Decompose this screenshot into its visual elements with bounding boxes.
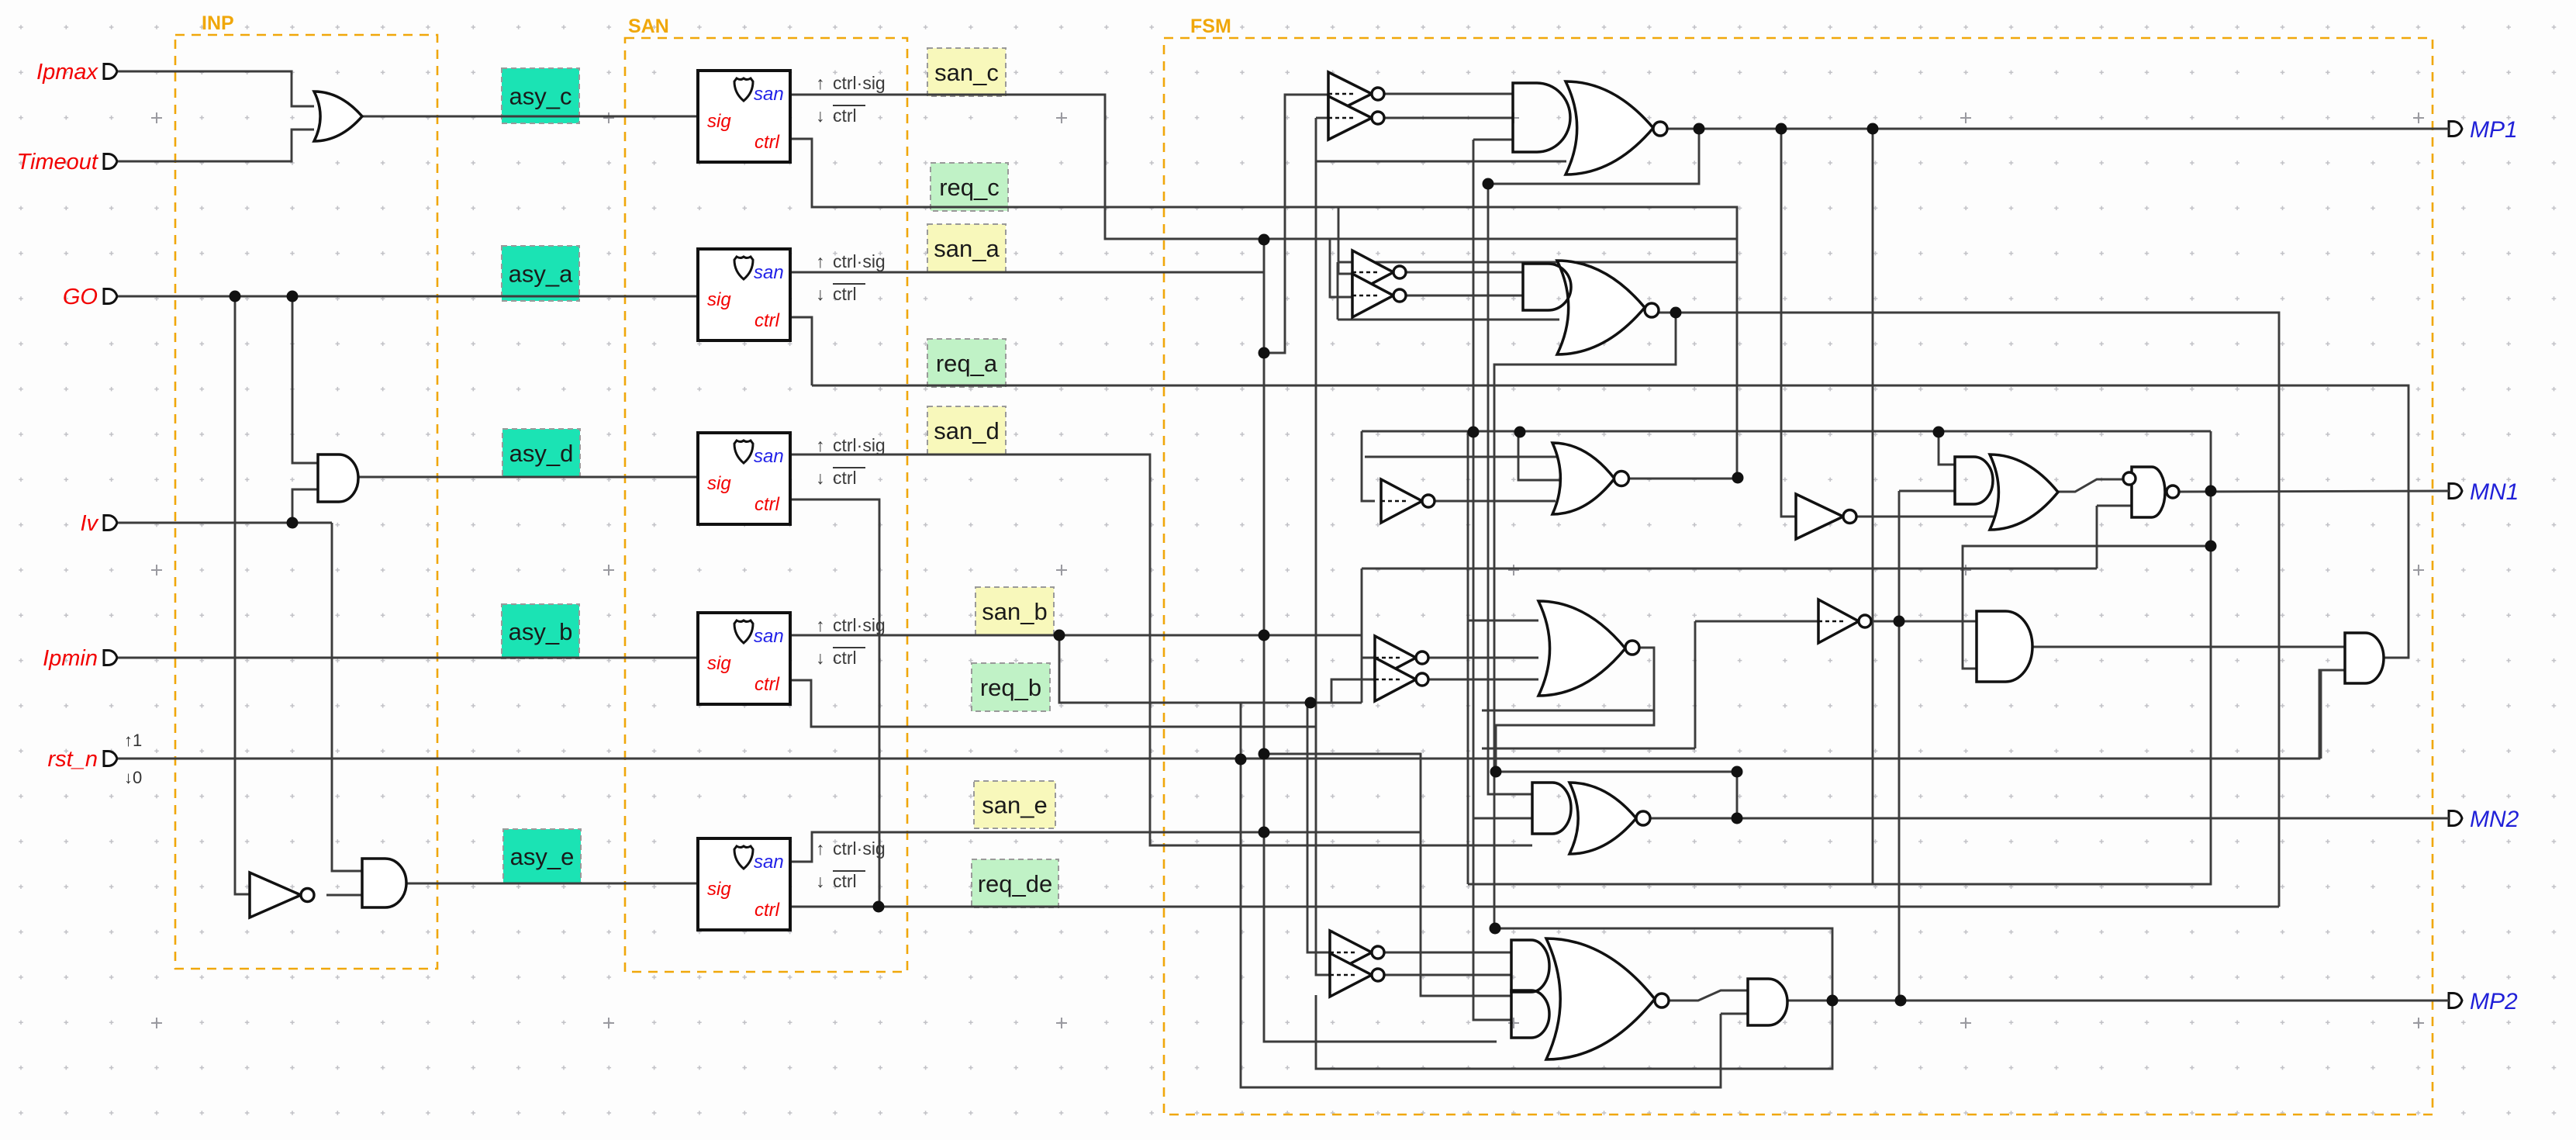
svg-text:↑: ↑ bbox=[816, 73, 825, 93]
svg-text:asy_d: asy_d bbox=[509, 440, 574, 467]
svg-text:↓: ↓ bbox=[816, 871, 825, 891]
svg-text:asy_c: asy_c bbox=[509, 83, 572, 110]
svg-text:ctrl: ctrl bbox=[833, 871, 857, 891]
svg-text:MN1: MN1 bbox=[2470, 479, 2519, 505]
svg-text:asy_e: asy_e bbox=[510, 843, 575, 870]
svg-text:↓: ↓ bbox=[816, 105, 825, 126]
svg-text:san: san bbox=[754, 446, 784, 467]
svg-text:↓: ↓ bbox=[816, 648, 825, 668]
svg-text:ctrl·sig: ctrl·sig bbox=[833, 615, 886, 635]
svg-text:ctrl: ctrl bbox=[754, 310, 780, 331]
svg-text:san: san bbox=[754, 262, 784, 283]
svg-text:ctrl: ctrl bbox=[833, 284, 857, 304]
svg-text:↑: ↑ bbox=[816, 838, 825, 859]
svg-text:↑1: ↑1 bbox=[124, 731, 142, 750]
svg-text:↓: ↓ bbox=[816, 468, 825, 488]
svg-text:req_b: req_b bbox=[980, 674, 1041, 701]
svg-text:INP: INP bbox=[202, 12, 234, 34]
svg-text:↑: ↑ bbox=[816, 251, 825, 271]
svg-text:ctrl·sig: ctrl·sig bbox=[833, 838, 886, 859]
svg-text:san: san bbox=[754, 852, 784, 873]
svg-text:req_a: req_a bbox=[936, 350, 998, 377]
svg-text:ctrl: ctrl bbox=[833, 468, 857, 488]
svg-text:san_b: san_b bbox=[982, 598, 1047, 625]
svg-text:↓: ↓ bbox=[816, 284, 825, 304]
svg-text:req_de: req_de bbox=[978, 870, 1053, 897]
svg-text:↑: ↑ bbox=[816, 435, 825, 455]
svg-text:sig: sig bbox=[707, 473, 731, 494]
svg-text:↓0: ↓0 bbox=[124, 768, 142, 787]
svg-text:ctrl: ctrl bbox=[754, 494, 780, 515]
svg-text:GO: GO bbox=[63, 285, 98, 309]
svg-text:san_d: san_d bbox=[934, 417, 999, 444]
svg-text:Ipmax: Ipmax bbox=[36, 60, 98, 85]
svg-text:MP2: MP2 bbox=[2470, 989, 2518, 1014]
svg-text:ctrl·sig: ctrl·sig bbox=[833, 435, 886, 455]
svg-text:ctrl: ctrl bbox=[754, 674, 780, 695]
svg-text:↑: ↑ bbox=[816, 615, 825, 635]
svg-text:sig: sig bbox=[707, 111, 731, 132]
svg-text:sig: sig bbox=[707, 653, 731, 674]
svg-text:asy_b: asy_b bbox=[509, 618, 573, 645]
svg-text:ctrl: ctrl bbox=[833, 105, 857, 126]
svg-text:Ipmin: Ipmin bbox=[43, 646, 98, 671]
svg-text:san_e: san_e bbox=[982, 792, 1047, 819]
svg-text:san_a: san_a bbox=[934, 235, 1000, 262]
svg-text:ctrl·sig: ctrl·sig bbox=[833, 73, 886, 93]
svg-text:req_c: req_c bbox=[939, 174, 1000, 201]
svg-text:ctrl: ctrl bbox=[754, 900, 780, 921]
svg-text:sig: sig bbox=[707, 879, 731, 900]
svg-text:rst_n: rst_n bbox=[48, 747, 98, 772]
svg-text:ctrl: ctrl bbox=[754, 132, 780, 153]
svg-text:SAN: SAN bbox=[628, 16, 669, 37]
svg-text:ctrl·sig: ctrl·sig bbox=[833, 251, 886, 271]
svg-text:asy_a: asy_a bbox=[509, 261, 573, 288]
svg-text:MP1: MP1 bbox=[2470, 117, 2518, 143]
svg-text:ctrl: ctrl bbox=[833, 648, 857, 668]
svg-text:san_c: san_c bbox=[934, 59, 999, 86]
svg-text:FSM: FSM bbox=[1190, 16, 1231, 37]
svg-text:sig: sig bbox=[707, 289, 731, 310]
svg-text:san: san bbox=[754, 626, 784, 647]
svg-text:san: san bbox=[754, 84, 784, 105]
svg-text:MN2: MN2 bbox=[2470, 807, 2519, 832]
svg-text:Iv: Iv bbox=[80, 511, 98, 536]
svg-text:Timeout: Timeout bbox=[16, 150, 98, 175]
